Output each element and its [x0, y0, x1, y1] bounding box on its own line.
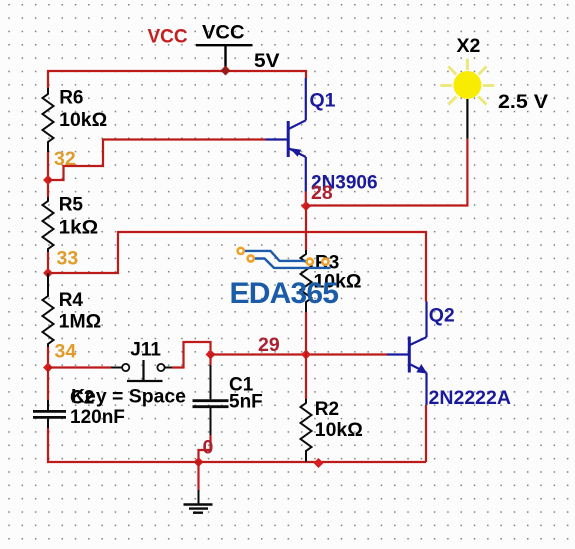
- svg-text:Q2: Q2: [429, 305, 455, 327]
- wire R5 to node 33: [47, 252, 49, 273]
- svg-text:Q1: Q1: [310, 90, 336, 112]
- EDA365 watermark: [230, 248, 339, 310]
- svg-text:5V: 5V: [254, 50, 280, 72]
- svg-text:VCC: VCC: [148, 26, 188, 47]
- svg-text:33: 33: [57, 248, 79, 270]
- svg-text:J11: J11: [130, 340, 161, 361]
- wire switch to node 29 top: [172, 342, 211, 368]
- svg-text:2N2222A: 2N2222A: [429, 387, 512, 409]
- svg-text:EDA365: EDA365: [230, 277, 339, 310]
- svg-text:Key = Space: Key = Space: [71, 387, 186, 408]
- resistor R5: [43, 194, 99, 252]
- svg-text:2.5 V: 2.5 V: [498, 91, 548, 113]
- svg-text:10kΩ: 10kΩ: [315, 420, 363, 441]
- resistor R3: [301, 206, 362, 355]
- resistor R6: [43, 87, 108, 152]
- svg-text:R5: R5: [59, 194, 84, 215]
- junction node29 left: [206, 350, 216, 360]
- resistor R2: [301, 355, 363, 463]
- junction node 32: [43, 175, 53, 185]
- svg-text:34: 34: [55, 341, 77, 363]
- vcc power symbol: [148, 22, 280, 73]
- wire top rail VCC to Q1 collector: [48, 71, 306, 88]
- wire R6 to node 32: [47, 152, 49, 197]
- junction node 28: [301, 201, 311, 211]
- resistor R4: [43, 273, 102, 347]
- svg-text:R4: R4: [59, 290, 84, 311]
- junction VCC tap: [221, 66, 231, 76]
- svg-text:29: 29: [258, 334, 280, 356]
- svg-text:28: 28: [311, 182, 333, 204]
- transistor Q2 2N2222A: [387, 302, 511, 410]
- svg-text:0: 0: [203, 437, 214, 459]
- svg-text:5nF: 5nF: [229, 392, 263, 413]
- svg-text:R2: R2: [315, 399, 339, 420]
- switch J11: [111, 340, 172, 382]
- wire C1 bottom jog to ground junction: [199, 435, 211, 462]
- wire node32 step to Q1 base: [48, 140, 266, 181]
- lamp X2: [440, 35, 548, 139]
- junction node29 at R3: [301, 350, 311, 360]
- wire C2 to bottom rail: [48, 428, 426, 462]
- svg-text:R6: R6: [59, 87, 83, 108]
- svg-text:120nF: 120nF: [70, 407, 125, 428]
- svg-text:1MΩ: 1MΩ: [59, 311, 101, 332]
- ground: [184, 462, 213, 513]
- wire node34 to switch: [48, 366, 111, 368]
- junction ground node: [194, 457, 204, 467]
- capacitor C1: [193, 355, 263, 436]
- wire node 29 run: [211, 353, 388, 355]
- svg-text:10kΩ: 10kΩ: [59, 110, 107, 131]
- wire Q1 emitter to node 28: [305, 192, 307, 207]
- wire node 28 to lamp: [306, 139, 467, 206]
- wire node33 to right rail: [48, 232, 426, 302]
- svg-text:VCC: VCC: [202, 22, 245, 44]
- junction node 34: [43, 363, 53, 373]
- svg-text:X2: X2: [457, 35, 481, 57]
- junction bottom rail right: [314, 458, 324, 468]
- transistor Q1 2N3906: [266, 78, 378, 194]
- junction node 33: [43, 268, 53, 278]
- capacitor C2: [33, 368, 125, 429]
- svg-text:1kΩ: 1kΩ: [59, 217, 98, 238]
- wire R4 to node 34: [47, 347, 49, 368]
- wire Q2 emitter to bottom rail: [425, 405, 427, 462]
